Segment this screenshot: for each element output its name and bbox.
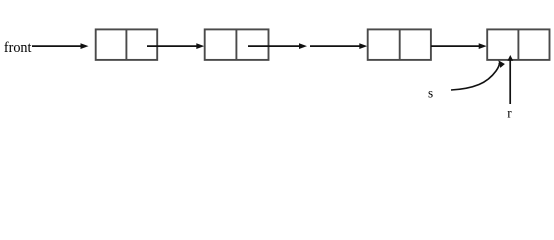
node N2 divider	[235, 29, 237, 60]
wire N1 next pointer shaft	[147, 45, 198, 47]
r pointer arrowhead	[507, 55, 513, 61]
N3 next pointer arrowhead	[479, 43, 487, 49]
node N3 divider	[399, 29, 401, 60]
wire N3 next pointer shaft	[431, 45, 481, 47]
wire mid connector shaft	[310, 45, 362, 47]
svg-text:r: r	[507, 105, 512, 120]
node N4 divider	[517, 29, 519, 60]
mid connector arrowhead	[359, 43, 367, 49]
wire s curved pointer	[451, 63, 499, 90]
svg-text:s: s	[428, 85, 433, 100]
front pointer arrowhead	[81, 43, 89, 49]
svg-text:front: front	[4, 40, 32, 56]
N2 next pointer arrowhead	[299, 43, 307, 49]
node N1 divider	[125, 29, 127, 60]
N1 next pointer arrowhead	[196, 43, 204, 49]
node N2 box	[205, 29, 269, 60]
node N3 box	[368, 29, 431, 60]
node N1 box	[96, 29, 158, 60]
wire front pointer shaft	[32, 45, 82, 47]
wire r pointer shaft	[509, 59, 511, 104]
node N4 box	[487, 29, 549, 60]
wire N2 next pointer shaft	[248, 45, 301, 47]
s pointer arrowhead	[498, 60, 505, 68]
